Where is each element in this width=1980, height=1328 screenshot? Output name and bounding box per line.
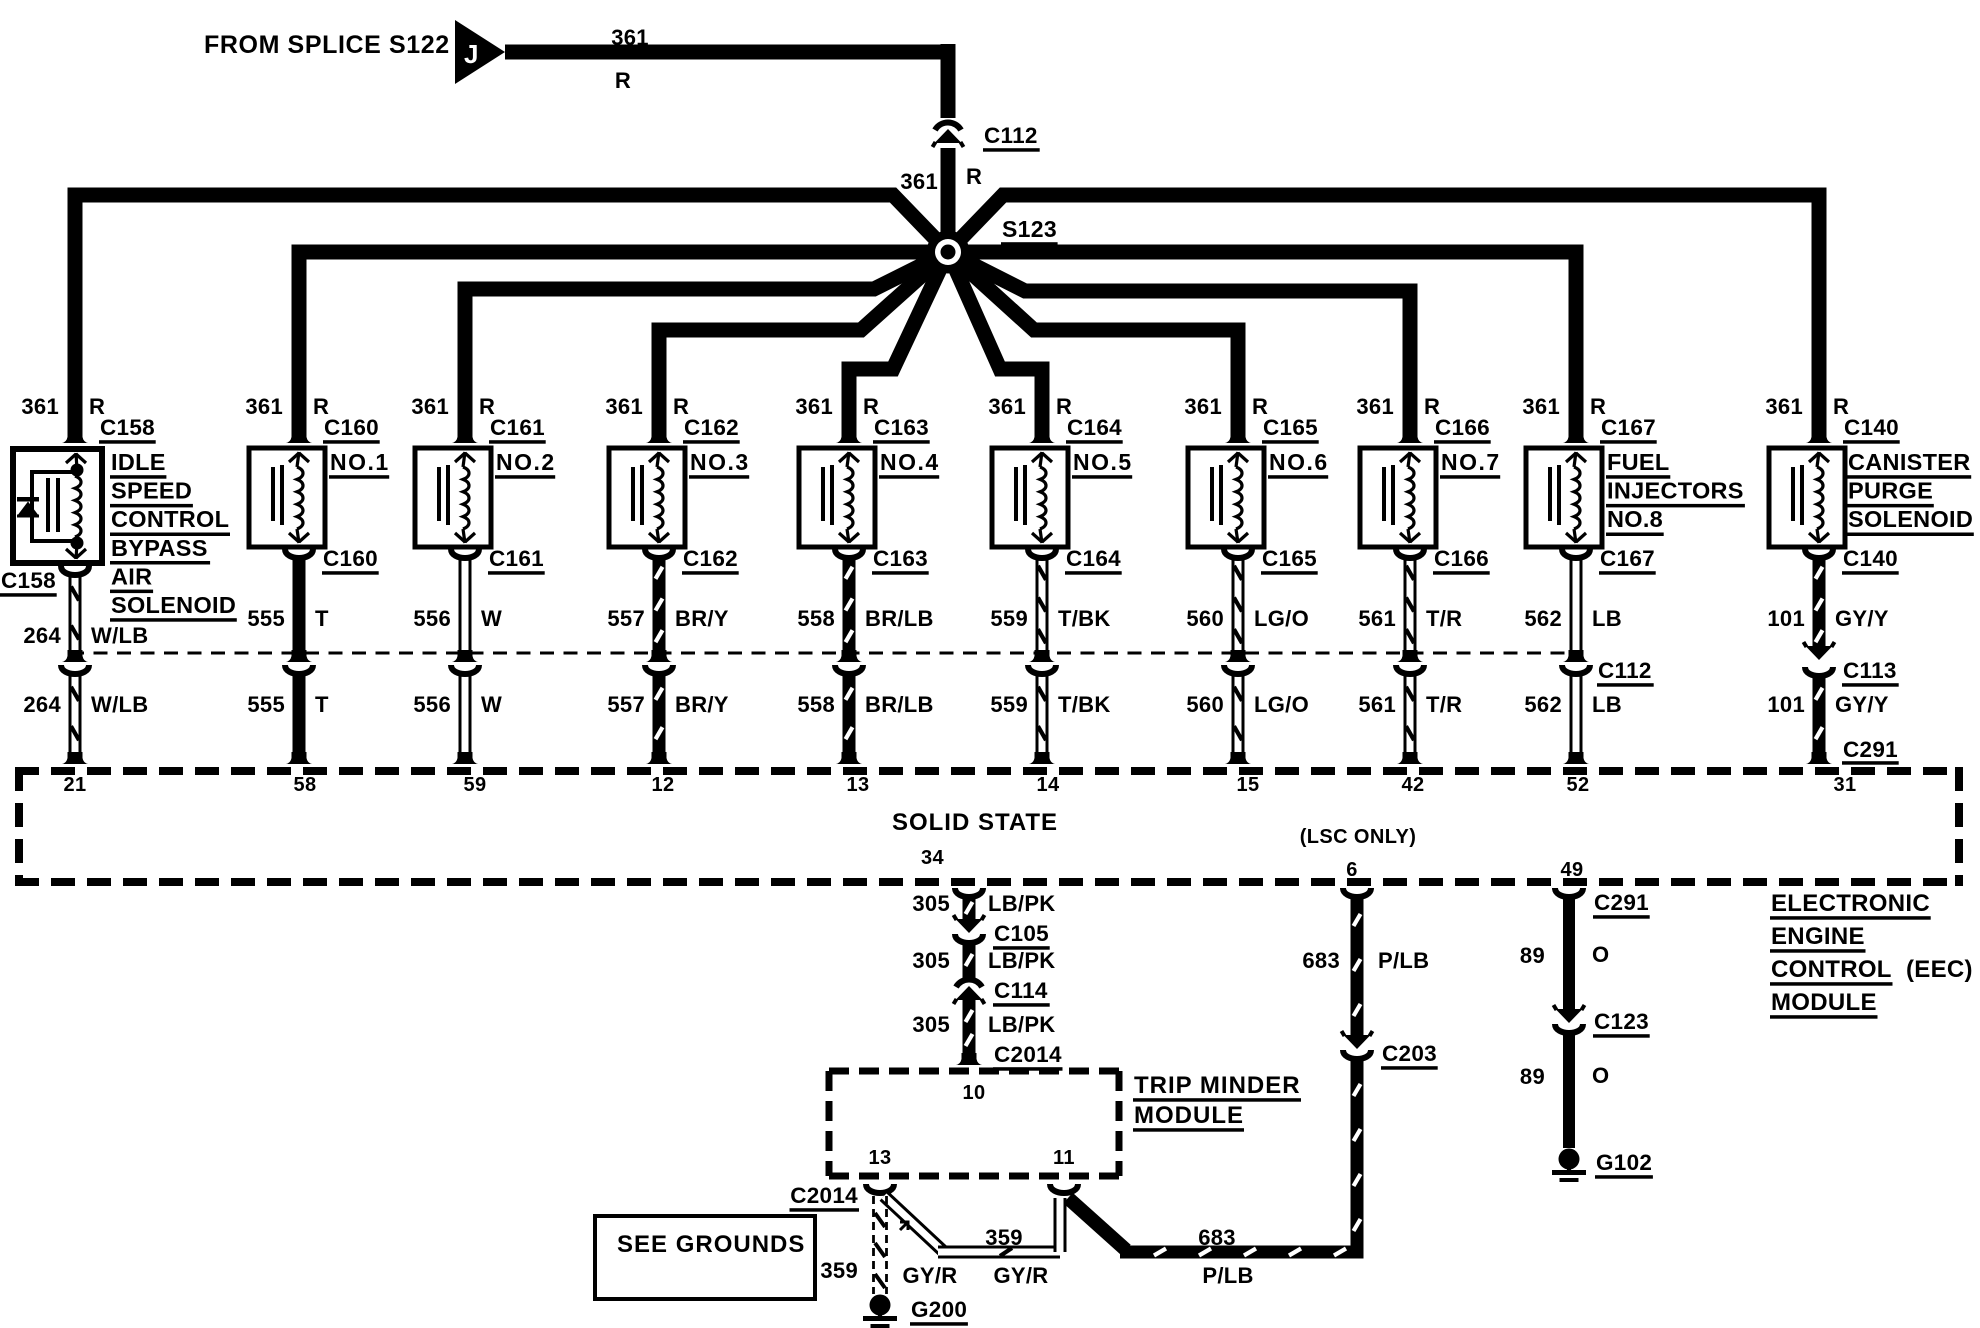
svg-text:J: J bbox=[464, 39, 478, 69]
svg-text:89: 89 bbox=[1520, 1064, 1545, 1089]
svg-text:C203: C203 bbox=[1382, 1041, 1437, 1066]
svg-text:361: 361 bbox=[795, 394, 833, 419]
svg-text:C113: C113 bbox=[1843, 658, 1897, 683]
svg-text:C167: C167 bbox=[1601, 415, 1656, 440]
svg-text:264: 264 bbox=[23, 623, 61, 648]
svg-text:NO.4: NO.4 bbox=[880, 449, 940, 475]
svg-text:T: T bbox=[315, 606, 329, 631]
svg-text:557: 557 bbox=[607, 606, 645, 631]
svg-text:GY/R: GY/R bbox=[994, 1263, 1049, 1288]
svg-text:C161: C161 bbox=[490, 415, 545, 440]
svg-text:555: 555 bbox=[247, 606, 285, 631]
svg-text:MODULE: MODULE bbox=[1134, 1102, 1244, 1129]
svg-text:AIR: AIR bbox=[111, 563, 152, 589]
svg-text:C161: C161 bbox=[489, 546, 544, 571]
svg-text:557: 557 bbox=[607, 692, 645, 717]
svg-text:P/LB: P/LB bbox=[1202, 1263, 1253, 1288]
svg-text:361: 361 bbox=[21, 394, 59, 419]
svg-text:GY/Y: GY/Y bbox=[1835, 692, 1889, 717]
svg-text:C140: C140 bbox=[1843, 546, 1898, 571]
svg-text:SOLENOID: SOLENOID bbox=[1848, 506, 1973, 532]
svg-text:W/LB: W/LB bbox=[91, 623, 148, 648]
svg-text:C291: C291 bbox=[1843, 737, 1898, 762]
svg-text:555: 555 bbox=[247, 692, 285, 717]
svg-text:C164: C164 bbox=[1066, 546, 1121, 571]
svg-text:C166: C166 bbox=[1435, 415, 1490, 440]
svg-text:C112: C112 bbox=[984, 123, 1038, 148]
svg-text:13: 13 bbox=[868, 1147, 891, 1169]
svg-text:6: 6 bbox=[1346, 859, 1358, 881]
svg-text:10: 10 bbox=[962, 1082, 985, 1104]
svg-text:15: 15 bbox=[1236, 774, 1259, 796]
svg-text:101: 101 bbox=[1767, 606, 1805, 631]
svg-text:42: 42 bbox=[1401, 774, 1424, 796]
svg-text:561: 561 bbox=[1358, 606, 1396, 631]
svg-text:59: 59 bbox=[463, 774, 486, 796]
svg-text:C158: C158 bbox=[1, 568, 56, 593]
svg-text:C2014: C2014 bbox=[994, 1042, 1062, 1067]
svg-text:683: 683 bbox=[1302, 948, 1340, 973]
svg-text:CANISTER: CANISTER bbox=[1848, 449, 1971, 475]
svg-text:C158: C158 bbox=[100, 415, 155, 440]
svg-text:(EEC): (EEC) bbox=[1906, 956, 1973, 983]
svg-text:21: 21 bbox=[63, 774, 86, 796]
svg-text:FROM SPLICE S122: FROM SPLICE S122 bbox=[204, 31, 450, 59]
svg-text:558: 558 bbox=[797, 692, 835, 717]
svg-text:CONTROL: CONTROL bbox=[1771, 956, 1892, 983]
svg-text:NO.8: NO.8 bbox=[1607, 506, 1663, 532]
svg-text:559: 559 bbox=[990, 606, 1028, 631]
svg-text:559: 559 bbox=[990, 692, 1028, 717]
svg-text:C163: C163 bbox=[873, 546, 928, 571]
svg-text:SPEED: SPEED bbox=[111, 478, 192, 504]
svg-text:NO.5: NO.5 bbox=[1073, 449, 1133, 475]
svg-text:ELECTRONIC: ELECTRONIC bbox=[1771, 890, 1930, 917]
svg-text:101: 101 bbox=[1767, 692, 1805, 717]
svg-text:C165: C165 bbox=[1262, 546, 1317, 571]
svg-text:562: 562 bbox=[1524, 606, 1562, 631]
svg-text:13: 13 bbox=[846, 774, 869, 796]
svg-text:C140: C140 bbox=[1844, 415, 1899, 440]
svg-text:PURGE: PURGE bbox=[1848, 478, 1933, 504]
svg-text:NO.6: NO.6 bbox=[1269, 449, 1329, 475]
svg-text:S123: S123 bbox=[1002, 216, 1057, 242]
svg-text:IDLE: IDLE bbox=[111, 449, 166, 475]
svg-text:361: 361 bbox=[411, 394, 449, 419]
svg-text:C112: C112 bbox=[1598, 658, 1652, 683]
svg-text:361: 361 bbox=[1356, 394, 1394, 419]
svg-text:T/BK: T/BK bbox=[1058, 692, 1111, 717]
svg-text:361: 361 bbox=[611, 25, 649, 50]
svg-text:C167: C167 bbox=[1600, 546, 1655, 571]
svg-text:CONTROL: CONTROL bbox=[111, 506, 229, 532]
svg-text:305: 305 bbox=[912, 1012, 950, 1037]
svg-text:49: 49 bbox=[1560, 859, 1583, 881]
svg-text:W/LB: W/LB bbox=[91, 692, 148, 717]
svg-text:361: 361 bbox=[1184, 394, 1222, 419]
svg-text:T: T bbox=[315, 692, 329, 717]
svg-text:89: 89 bbox=[1520, 943, 1545, 968]
svg-text:LB: LB bbox=[1592, 692, 1622, 717]
svg-text:C165: C165 bbox=[1263, 415, 1318, 440]
svg-text:BR/Y: BR/Y bbox=[675, 606, 729, 631]
svg-text:C166: C166 bbox=[1434, 546, 1489, 571]
svg-text:LB/PK: LB/PK bbox=[988, 891, 1056, 916]
svg-text:O: O bbox=[1592, 1063, 1609, 1088]
svg-text:58: 58 bbox=[293, 774, 316, 796]
svg-text:FUEL: FUEL bbox=[1607, 449, 1670, 475]
svg-text:SOLID STATE: SOLID STATE bbox=[892, 809, 1058, 836]
svg-text:BR/LB: BR/LB bbox=[865, 606, 934, 631]
svg-text:C291: C291 bbox=[1594, 890, 1649, 915]
svg-text:GY/R: GY/R bbox=[903, 1263, 958, 1288]
svg-text:BYPASS: BYPASS bbox=[111, 535, 208, 561]
svg-text:G102: G102 bbox=[1596, 1150, 1652, 1175]
svg-text:361: 361 bbox=[900, 169, 938, 194]
svg-text:52: 52 bbox=[1566, 774, 1589, 796]
svg-text:34: 34 bbox=[921, 847, 945, 869]
svg-text:G200: G200 bbox=[911, 1297, 967, 1322]
svg-text:11: 11 bbox=[1053, 1147, 1075, 1169]
svg-text:BR/Y: BR/Y bbox=[675, 692, 729, 717]
svg-text:C160: C160 bbox=[323, 546, 378, 571]
svg-text:361: 361 bbox=[988, 394, 1026, 419]
svg-text:14: 14 bbox=[1036, 774, 1060, 796]
svg-text:C162: C162 bbox=[683, 546, 738, 571]
svg-text:305: 305 bbox=[912, 948, 950, 973]
svg-text:683: 683 bbox=[1198, 1225, 1236, 1250]
svg-text:305: 305 bbox=[912, 891, 950, 916]
svg-text:O: O bbox=[1592, 942, 1609, 967]
svg-text:C163: C163 bbox=[874, 415, 929, 440]
svg-text:R: R bbox=[966, 164, 982, 189]
svg-text:LB: LB bbox=[1592, 606, 1622, 631]
svg-text:264: 264 bbox=[23, 692, 61, 717]
svg-text:C2014: C2014 bbox=[790, 1183, 858, 1208]
svg-text:NO.7: NO.7 bbox=[1441, 449, 1501, 475]
svg-text:560: 560 bbox=[1186, 692, 1224, 717]
svg-text:LB/PK: LB/PK bbox=[988, 1012, 1056, 1037]
svg-text:W: W bbox=[481, 692, 502, 717]
svg-text:361: 361 bbox=[605, 394, 643, 419]
svg-text:31: 31 bbox=[1833, 774, 1856, 796]
svg-text:NO.1: NO.1 bbox=[330, 449, 390, 475]
svg-text:SOLENOID: SOLENOID bbox=[111, 592, 236, 618]
svg-text:T/BK: T/BK bbox=[1058, 606, 1111, 631]
svg-text:C160: C160 bbox=[324, 415, 379, 440]
svg-text:BR/LB: BR/LB bbox=[865, 692, 934, 717]
svg-text:361: 361 bbox=[1522, 394, 1560, 419]
svg-text:12: 12 bbox=[651, 774, 674, 796]
svg-text:T/R: T/R bbox=[1426, 606, 1462, 631]
svg-text:359: 359 bbox=[820, 1258, 858, 1283]
svg-text:INJECTORS: INJECTORS bbox=[1607, 478, 1744, 504]
svg-text:556: 556 bbox=[413, 692, 451, 717]
svg-text:P/LB: P/LB bbox=[1378, 948, 1429, 973]
svg-text:MODULE: MODULE bbox=[1771, 989, 1877, 1016]
svg-text:NO.3: NO.3 bbox=[690, 449, 750, 475]
svg-text:C164: C164 bbox=[1067, 415, 1122, 440]
svg-text:GY/Y: GY/Y bbox=[1835, 606, 1889, 631]
svg-text:558: 558 bbox=[797, 606, 835, 631]
svg-text:562: 562 bbox=[1524, 692, 1562, 717]
svg-text:SEE GROUNDS: SEE GROUNDS bbox=[617, 1231, 805, 1258]
svg-text:C123: C123 bbox=[1594, 1009, 1649, 1034]
svg-text:LG/O: LG/O bbox=[1254, 692, 1309, 717]
svg-text:C162: C162 bbox=[684, 415, 739, 440]
svg-text:C105: C105 bbox=[994, 921, 1049, 946]
svg-text:361: 361 bbox=[245, 394, 283, 419]
svg-text:556: 556 bbox=[413, 606, 451, 631]
svg-text:W: W bbox=[481, 606, 502, 631]
svg-text:TRIP MINDER: TRIP MINDER bbox=[1134, 1072, 1301, 1099]
svg-text:LG/O: LG/O bbox=[1254, 606, 1309, 631]
svg-text:C114: C114 bbox=[994, 978, 1048, 1003]
svg-text:ENGINE: ENGINE bbox=[1771, 923, 1865, 950]
svg-text:R: R bbox=[615, 68, 631, 93]
svg-text:560: 560 bbox=[1186, 606, 1224, 631]
svg-text:LB/PK: LB/PK bbox=[988, 948, 1056, 973]
svg-text:361: 361 bbox=[1765, 394, 1803, 419]
svg-text:561: 561 bbox=[1358, 692, 1396, 717]
svg-text:359: 359 bbox=[985, 1225, 1023, 1250]
svg-text:(LSC ONLY): (LSC ONLY) bbox=[1300, 826, 1417, 848]
svg-text:T/R: T/R bbox=[1426, 692, 1462, 717]
svg-text:NO.2: NO.2 bbox=[496, 449, 556, 475]
